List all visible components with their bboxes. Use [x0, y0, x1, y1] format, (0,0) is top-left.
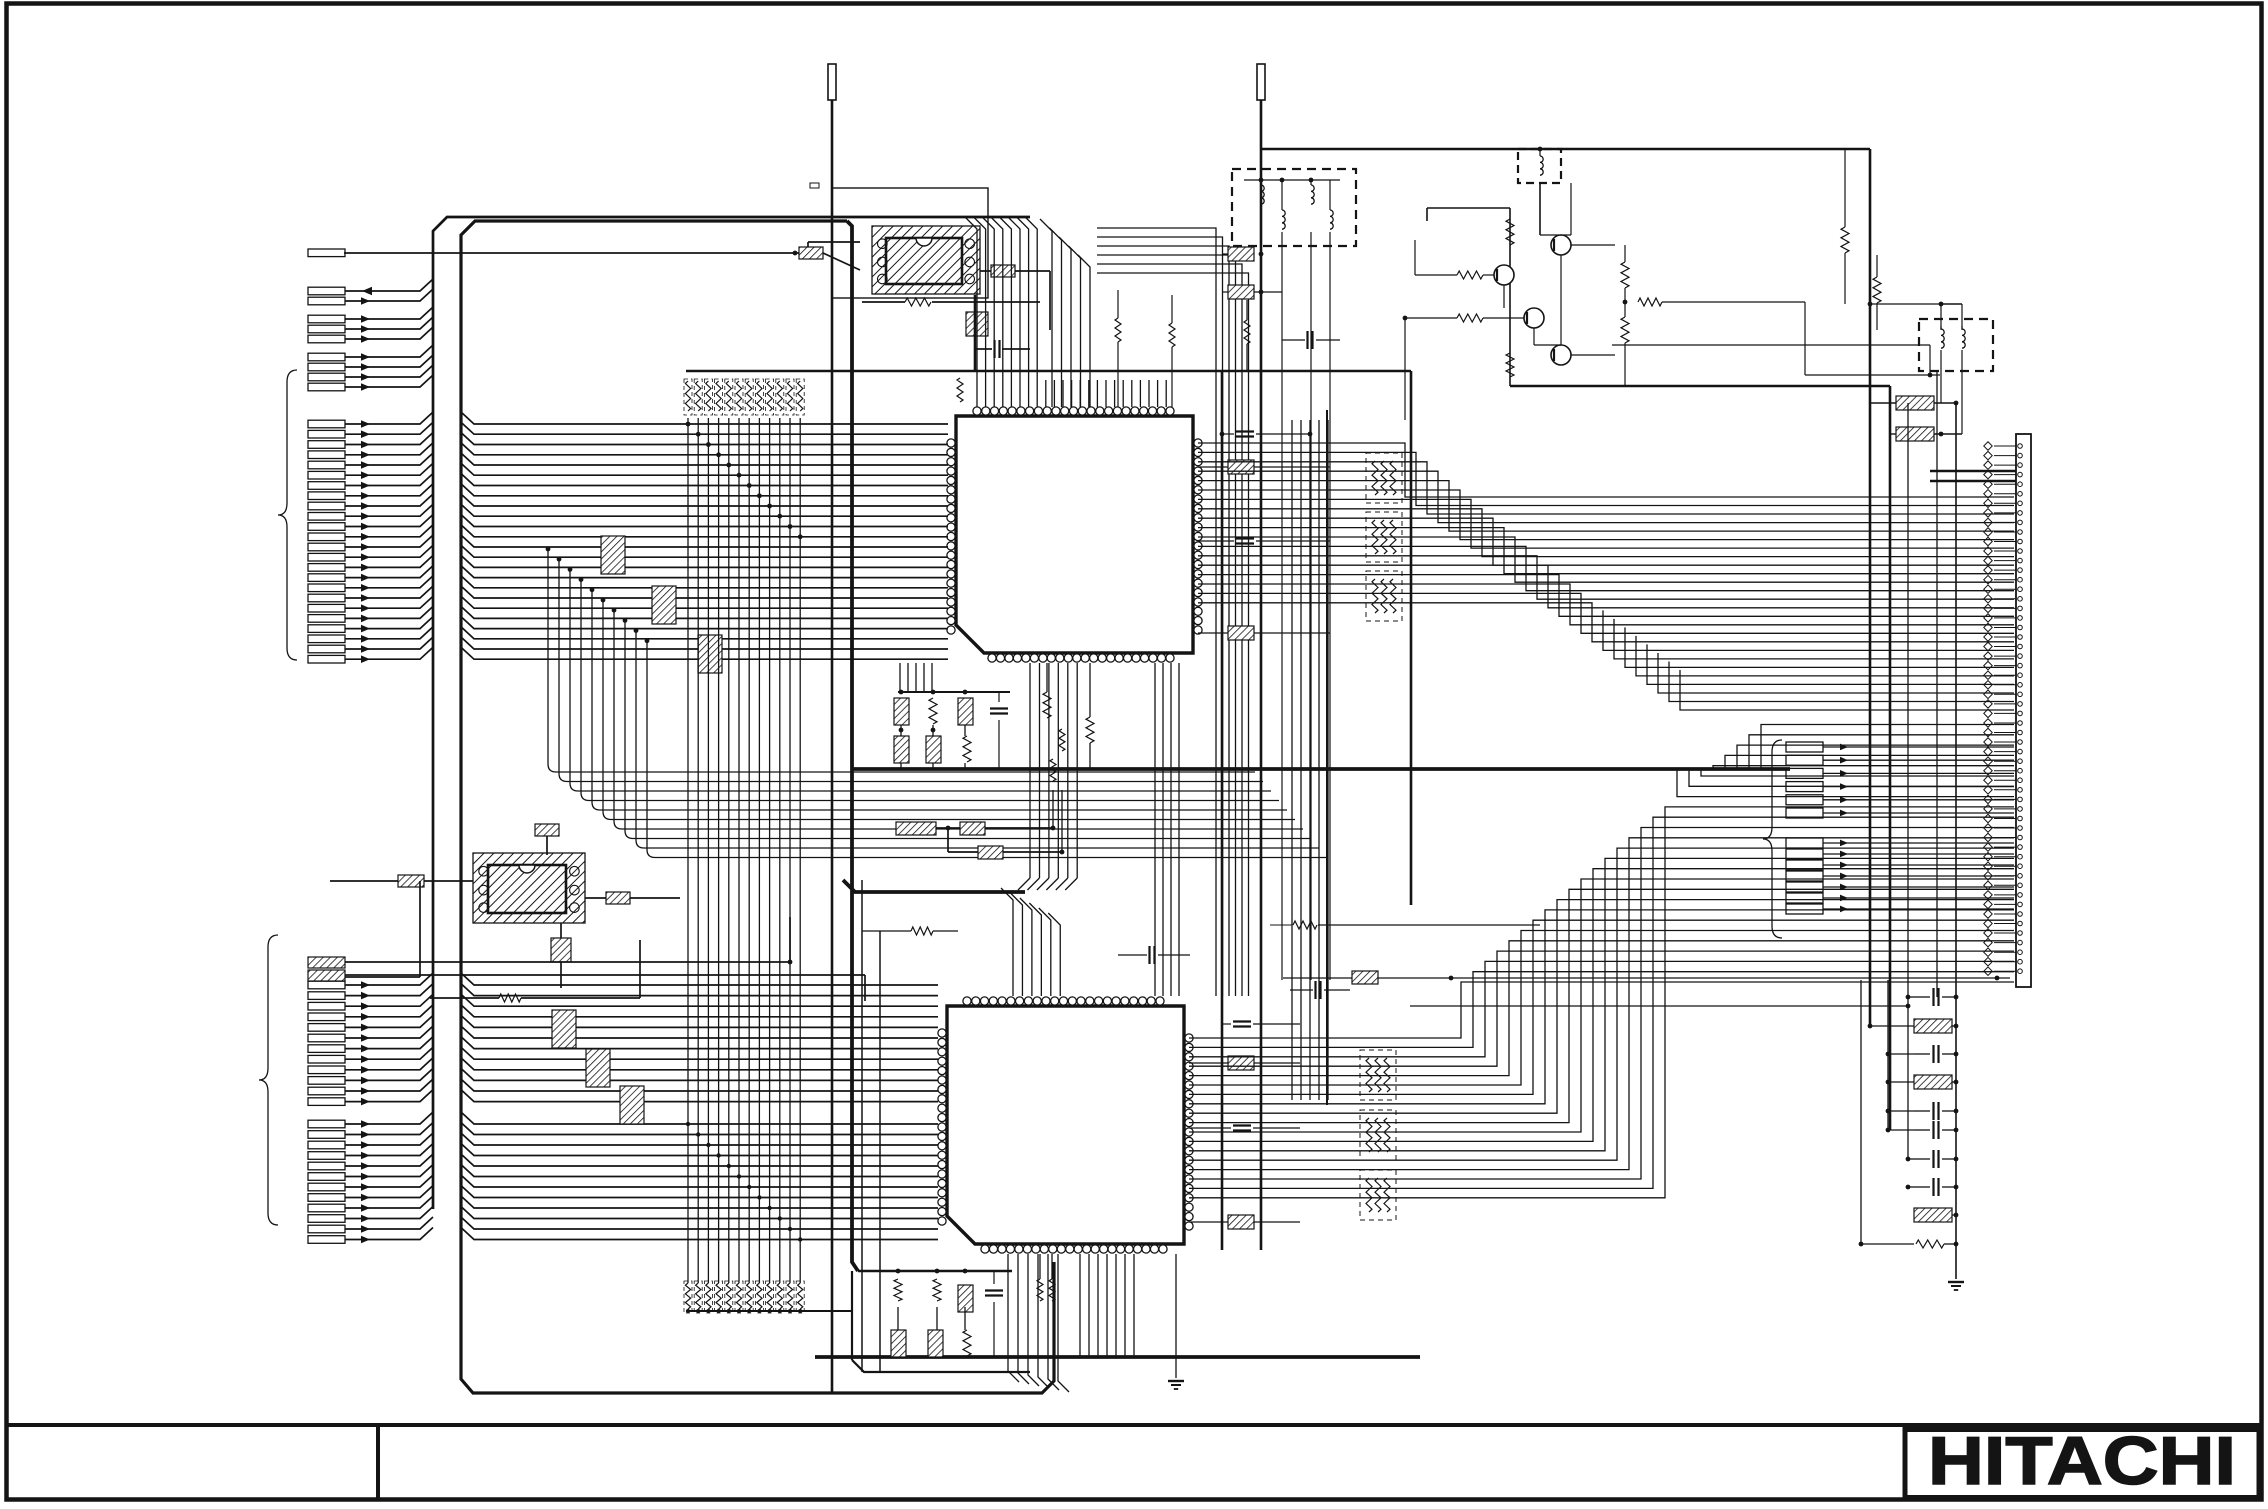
svg-text:HITACHI: HITACHI	[1928, 1423, 2236, 1499]
